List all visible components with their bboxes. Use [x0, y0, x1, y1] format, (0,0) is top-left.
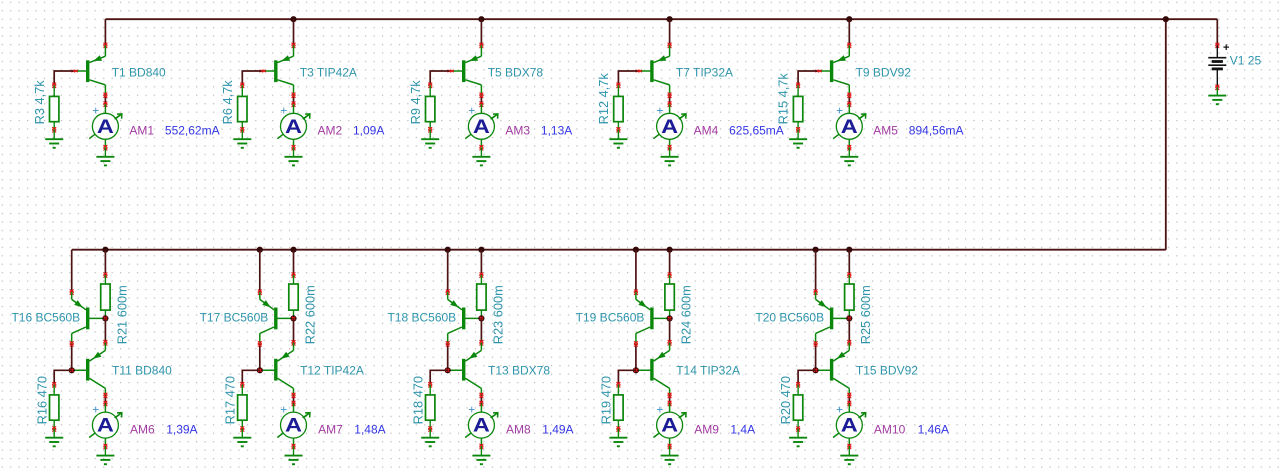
- label transistor T15 BDV92: [856, 364, 918, 378]
- svg-text:R15 4,7k: R15 4,7k: [776, 73, 791, 125]
- svg-text:+: +: [836, 104, 843, 118]
- svg-text:T3 TIP42A: T3 TIP42A: [300, 66, 357, 80]
- ammeter AM2: [277, 104, 310, 151]
- ammeter AM3: [465, 104, 498, 151]
- node bottom bus junction resistor R24: [667, 247, 673, 253]
- node junction base T11 / collector T16 / R16: [69, 367, 75, 373]
- svg-text:T20 BC560B: T20 BC560B: [755, 311, 824, 325]
- svg-text:R18 470: R18 470: [410, 376, 425, 424]
- wire R25 top feed: [847, 250, 851, 278]
- svg-text:R6 4,7k: R6 4,7k: [220, 80, 235, 125]
- wire collector of T5 to ammeter AM3: [479, 93, 483, 107]
- value ammeter AM3 reading 1,13A: [541, 123, 572, 137]
- label resistor R18 470: [410, 376, 425, 424]
- transistor T5 (BDX78) PNP: [447, 45, 481, 95]
- wire emitter drop to T1: [103, 19, 107, 48]
- svg-text:1,13A: 1,13A: [541, 123, 572, 137]
- label ammeter AM9: [694, 423, 719, 437]
- value ammeter AM2 reading 1,09A: [353, 123, 384, 137]
- label resistor R22 600m: [302, 285, 317, 344]
- wire battery feed from top bus: [1215, 19, 1219, 48]
- ammeter AM8: [465, 402, 498, 449]
- label ammeter AM10: [874, 423, 906, 437]
- wire emitter feed of T13: [479, 318, 483, 345]
- transistor T9 (BDV92) PNP: [815, 45, 849, 95]
- wire collector of T13 to ammeter AM8: [479, 393, 483, 406]
- node bottom bus junction left tap circuit 8: [445, 247, 451, 253]
- ammeter AM10: [833, 402, 866, 449]
- wire emitter drop to T20: [814, 250, 818, 295]
- node junction base T12 / collector T17 / R17: [257, 367, 263, 373]
- resistor R12 4,7k: [614, 85, 623, 132]
- value ammeter AM7 reading 1,48A: [354, 423, 385, 437]
- svg-text:T7 TIP32A: T7 TIP32A: [676, 66, 733, 80]
- label resistor R24 600m: [679, 285, 694, 344]
- svg-text:A: A: [97, 117, 114, 138]
- svg-text:625,65mA: 625,65mA: [729, 123, 784, 137]
- wire emitter drop to T5: [479, 19, 483, 48]
- ground under resistor R15: [789, 130, 807, 148]
- transistor T12 (TIP42A) PNP: [260, 343, 294, 396]
- svg-text:A: A: [285, 117, 302, 138]
- svg-text:T16 BC560B: T16 BC560B: [11, 311, 80, 325]
- label resistor R21 600m: [114, 285, 129, 344]
- node bottom bus junction resistor R23: [478, 247, 484, 253]
- value ammeter AM5 reading 894,56mA: [909, 123, 964, 137]
- ammeter AM6: [89, 402, 122, 449]
- label resistor R25 600m: [858, 285, 873, 344]
- svg-text:+: +: [836, 402, 843, 416]
- svg-text:R24 600m: R24 600m: [679, 285, 694, 344]
- ground under ammeter AM10: [840, 447, 858, 465]
- resistor R16 470: [50, 385, 59, 432]
- svg-text:AM5: AM5: [873, 123, 898, 137]
- label resistor R3 4,7k: [32, 80, 47, 125]
- svg-text:T12 TIP42A: T12 TIP42A: [300, 364, 364, 378]
- ammeter AM5: [833, 104, 866, 151]
- svg-text:R21 600m: R21 600m: [114, 285, 129, 344]
- wire emitter drop to T18: [446, 250, 450, 295]
- label resistor R20 470: [778, 376, 793, 424]
- wire emitter drop to T16: [70, 250, 74, 295]
- label transistor T16 BC560B: [11, 311, 80, 325]
- label ammeter AM7: [318, 423, 343, 437]
- svg-text:A: A: [473, 117, 490, 138]
- ground under battery V1: [1208, 87, 1226, 104]
- wire base of T7 to resistor R12: [616, 71, 637, 88]
- svg-text:R16 470: R16 470: [34, 376, 49, 424]
- svg-text:+: +: [92, 402, 99, 416]
- svg-text:1,49A: 1,49A: [542, 423, 573, 437]
- svg-text:1,48A: 1,48A: [354, 423, 385, 437]
- node top bus junction circuit 5: [846, 16, 852, 22]
- ground under ammeter AM6: [96, 447, 114, 465]
- wire collector T19 down to base node: [634, 341, 638, 370]
- ammeter AM7: [277, 402, 310, 449]
- wire emitter drop to T7: [668, 19, 672, 48]
- svg-text:T18 BC560B: T18 BC560B: [387, 311, 456, 325]
- svg-text:R25 600m: R25 600m: [858, 285, 873, 344]
- wire base of T1 to resistor R3: [52, 71, 73, 88]
- node top bus junction circuit 2: [290, 16, 296, 22]
- label ammeter AM6: [130, 423, 155, 437]
- node junction base T15 / collector T20 / R20: [813, 367, 819, 373]
- ground under resistor R9: [421, 130, 439, 148]
- svg-text:AM4: AM4: [694, 123, 719, 137]
- svg-text:894,56mA: 894,56mA: [909, 123, 964, 137]
- transistor T16 (BC560B) PNP mirrored: [72, 292, 106, 344]
- wire base node to resistor R20: [796, 370, 816, 387]
- node junction base T17 / R22 / emitter T12: [290, 315, 296, 321]
- wire collector of T15 to ammeter AM10: [847, 393, 851, 406]
- resistor R24 600m: [665, 275, 674, 318]
- ground under ammeter AM1: [96, 148, 114, 166]
- node bottom bus junction left tap circuit 9: [633, 247, 639, 253]
- label transistor T1 BD840: [112, 66, 166, 80]
- svg-text:AM7: AM7: [318, 423, 343, 437]
- label transistor T19 BC560B: [576, 311, 645, 325]
- svg-text:T5 BDX78: T5 BDX78: [488, 66, 544, 80]
- transistor T15 (BDV92) PNP: [816, 343, 850, 396]
- value ammeter AM9 reading 1,4A: [730, 423, 755, 437]
- node top bus junction circuit 4: [667, 16, 673, 22]
- svg-text:+: +: [656, 402, 663, 416]
- wire collector of T9 to ammeter AM5: [847, 93, 851, 107]
- ground under resistor R3: [45, 130, 63, 148]
- svg-text:T19 BC560B: T19 BC560B: [576, 311, 645, 325]
- svg-text:V1 25: V1 25: [1230, 54, 1262, 68]
- node junction base T13 / collector T18 / R18: [445, 367, 451, 373]
- value ammeter AM1 reading 552,62mA: [165, 123, 220, 137]
- resistor R23 600m: [477, 275, 486, 318]
- wire right vertical bus to bottom row: [1165, 19, 1167, 250]
- wire collector T16 down to base node: [70, 341, 74, 370]
- resistor R19 470: [614, 385, 623, 432]
- label transistor T5 BDX78: [488, 66, 544, 80]
- value ammeter AM6 reading 1,39A: [166, 423, 197, 437]
- transistor T19 (BC560B) PNP mirrored: [636, 292, 670, 344]
- svg-text:+: +: [1223, 42, 1229, 54]
- svg-text:+: +: [280, 402, 287, 416]
- wire collector T17 down to base node: [258, 341, 262, 370]
- label transistor T13 BDX78: [488, 364, 550, 378]
- svg-text:+: +: [468, 402, 475, 416]
- label transistor T11 BD840: [112, 364, 172, 378]
- wire base node to resistor R17: [240, 370, 259, 387]
- wire base of T5 to resistor R9: [428, 71, 449, 88]
- svg-text:T11 BD840: T11 BD840: [112, 364, 172, 378]
- ground under ammeter AM5: [840, 148, 858, 166]
- ammeter AM1: [89, 104, 122, 151]
- label transistor T7 TIP32A: [676, 66, 733, 80]
- ground under ammeter AM9: [661, 447, 679, 465]
- svg-text:T9 BDV92: T9 BDV92: [856, 66, 912, 80]
- wire emitter feed of T12: [292, 318, 296, 345]
- label transistor T20 BC560B: [755, 311, 824, 325]
- transistor T13 (BDX78) PNP: [448, 343, 482, 396]
- label transistor T18 BC560B: [387, 311, 456, 325]
- resistor R22 600m: [289, 275, 298, 318]
- transistor T14 (TIP32A) PNP: [636, 343, 670, 396]
- ground under resistor R6: [233, 130, 251, 148]
- ground under ammeter AM3: [472, 148, 490, 166]
- svg-text:T15 BDV92: T15 BDV92: [856, 364, 918, 378]
- svg-text:A: A: [841, 416, 858, 437]
- ground under ammeter AM8: [472, 447, 490, 465]
- transistor T18 (BC560B) PNP mirrored: [448, 292, 482, 344]
- wire emitter drop to T9: [847, 19, 851, 48]
- svg-text:1,09A: 1,09A: [353, 123, 384, 137]
- svg-text:552,62mA: 552,62mA: [165, 123, 220, 137]
- svg-text:T14 TIP32A: T14 TIP32A: [676, 364, 740, 378]
- label transistor T12 TIP42A: [300, 364, 364, 378]
- wire collector of T12 to ammeter AM7: [292, 393, 296, 406]
- wire R22 top feed: [292, 250, 296, 278]
- label resistor R16 470: [34, 376, 49, 424]
- wire collector T18 down to base node: [446, 341, 450, 370]
- value ammeter AM8 reading 1,49A: [542, 423, 573, 437]
- label resistor R6 4,7k: [220, 80, 235, 125]
- wire collector of T3 to ammeter AM2: [292, 93, 296, 107]
- ground under resistor R16: [45, 429, 63, 446]
- wire emitter drop to T19: [634, 250, 638, 295]
- wire collector of T14 to ammeter AM9: [668, 393, 672, 406]
- label resistor R17 470: [222, 376, 237, 424]
- ground under resistor R17: [233, 429, 251, 446]
- ground under resistor R20: [789, 429, 807, 446]
- ground under resistor R19: [609, 429, 627, 446]
- label resistor R23 600m: [490, 285, 505, 344]
- wire base of T3 to resistor R6: [240, 71, 261, 88]
- label battery V1 25: [1230, 54, 1262, 68]
- svg-text:R22 600m: R22 600m: [302, 285, 317, 344]
- label ammeter AM3: [505, 123, 530, 137]
- wire collector of T7 to ammeter AM4: [668, 93, 672, 107]
- transistor T20 (BC560B) PNP mirrored: [816, 292, 850, 344]
- label ammeter AM8: [506, 423, 531, 437]
- label resistor R9 4,7k: [408, 80, 423, 125]
- resistor R17 470: [238, 385, 247, 432]
- resistor R6 4,7k: [238, 85, 247, 132]
- svg-text:AM1: AM1: [129, 123, 154, 137]
- svg-text:R3 4,7k: R3 4,7k: [32, 80, 47, 125]
- wire emitter drop to T3: [292, 19, 296, 48]
- ammeter AM4: [653, 104, 686, 151]
- wire base node to resistor R16: [52, 370, 71, 387]
- transistor T1 (BD840) PNP: [71, 45, 105, 95]
- svg-text:A: A: [661, 416, 678, 437]
- svg-text:A: A: [97, 416, 114, 437]
- svg-text:R19 470: R19 470: [599, 376, 614, 424]
- wire emitter drop to T17: [258, 250, 262, 295]
- svg-text:A: A: [841, 117, 858, 138]
- label ammeter AM1: [129, 123, 154, 137]
- ground under ammeter AM2: [285, 148, 303, 166]
- svg-text:1,39A: 1,39A: [166, 423, 197, 437]
- wire emitter feed of T14: [668, 318, 672, 345]
- resistor R20 470: [793, 385, 802, 432]
- svg-text:AM2: AM2: [318, 123, 343, 137]
- svg-text:AM3: AM3: [505, 123, 530, 137]
- node bottom bus junction resistor R21: [102, 247, 108, 253]
- ground under resistor R12: [609, 130, 627, 148]
- svg-text:+: +: [280, 104, 287, 118]
- svg-text:1,4A: 1,4A: [730, 423, 755, 437]
- battery V1 25: [1208, 42, 1229, 90]
- label resistor R12 4,7k: [596, 73, 611, 125]
- label resistor R15 4,7k: [776, 73, 791, 125]
- node top bus junction circuit 3: [478, 16, 484, 22]
- wire collector of T1 to ammeter AM1: [103, 93, 107, 107]
- node junction base T18 / R23 / emitter T13: [478, 315, 484, 321]
- svg-text:+: +: [468, 104, 475, 118]
- wire base node to resistor R19: [616, 370, 636, 387]
- resistor R15 4,7k: [793, 85, 802, 132]
- transistor T17 (BC560B) PNP mirrored: [260, 292, 294, 344]
- svg-text:AM8: AM8: [506, 423, 531, 437]
- node bottom bus junction left tap circuit 7: [257, 247, 263, 253]
- node junction top bus to right bus: [1163, 16, 1169, 22]
- svg-text:A: A: [285, 416, 302, 437]
- ammeter AM9: [653, 402, 686, 449]
- resistor R25 600m: [845, 275, 854, 318]
- transistor T7 (TIP32A) PNP: [636, 45, 670, 95]
- node junction base T20 / R25 / emitter T15: [846, 315, 852, 321]
- svg-text:AM6: AM6: [130, 423, 155, 437]
- wire top supply bus: [105, 18, 1217, 20]
- label ammeter AM4: [694, 123, 719, 137]
- svg-text:+: +: [656, 104, 663, 118]
- label transistor T3 TIP42A: [300, 66, 357, 80]
- svg-text:R23 600m: R23 600m: [490, 285, 505, 344]
- resistor R9 4,7k: [426, 85, 435, 132]
- label transistor T9 BDV92: [856, 66, 912, 80]
- svg-text:T13 BDX78: T13 BDX78: [488, 364, 550, 378]
- wire bottom supply bus: [72, 249, 1166, 251]
- wire base of T9 to resistor R15: [796, 71, 817, 88]
- svg-text:A: A: [473, 416, 490, 437]
- svg-text:T17 BC560B: T17 BC560B: [200, 311, 269, 325]
- value ammeter AM10 reading 1,46A: [918, 423, 949, 437]
- svg-text:1,46A: 1,46A: [918, 423, 949, 437]
- wire emitter feed of T15: [847, 318, 851, 345]
- node junction base T19 / R24 / emitter T14: [667, 315, 673, 321]
- ground under ammeter AM4: [661, 148, 679, 166]
- svg-text:A: A: [661, 117, 678, 138]
- wire collector of T11 to ammeter AM6: [103, 393, 107, 406]
- wire R23 top feed: [479, 250, 483, 278]
- node junction base T14 / collector T19 / R19: [633, 367, 639, 373]
- svg-text:R12 4,7k: R12 4,7k: [596, 73, 611, 125]
- svg-text:AM9: AM9: [694, 423, 719, 437]
- wire emitter feed of T11: [103, 318, 107, 345]
- node junction base T16 / R21 / emitter T11: [102, 315, 108, 321]
- svg-text:+: +: [92, 104, 99, 118]
- svg-text:R17 470: R17 470: [222, 376, 237, 424]
- ground under resistor R18: [421, 429, 439, 446]
- label transistor T14 TIP32A: [676, 364, 740, 378]
- transistor T3 (TIP42A) PNP: [260, 45, 294, 95]
- svg-text:T1 BD840: T1 BD840: [112, 66, 166, 80]
- label resistor R19 470: [599, 376, 614, 424]
- label ammeter AM5: [873, 123, 898, 137]
- resistor R3 4,7k: [50, 85, 59, 132]
- wire R21 top feed: [103, 250, 107, 278]
- label ammeter AM2: [318, 123, 343, 137]
- svg-text:R9 4,7k: R9 4,7k: [408, 80, 423, 125]
- svg-text:R20 470: R20 470: [778, 376, 793, 424]
- ground under ammeter AM7: [285, 447, 303, 465]
- node bottom bus junction resistor R22: [290, 247, 296, 253]
- wire R24 top feed: [668, 250, 672, 278]
- node bottom bus junction left tap circuit 10: [813, 247, 819, 253]
- label transistor T17 BC560B: [200, 311, 269, 325]
- svg-text:AM10: AM10: [874, 423, 906, 437]
- value ammeter AM4 reading 625,65mA: [729, 123, 784, 137]
- resistor R18 470: [426, 385, 435, 432]
- transistor T11 (BD840) PNP: [72, 343, 106, 396]
- wire collector T20 down to base node: [814, 341, 818, 370]
- wire base node to resistor R18: [428, 370, 448, 387]
- node bottom bus junction resistor R25: [846, 247, 852, 253]
- resistor R21 600m: [101, 275, 110, 318]
